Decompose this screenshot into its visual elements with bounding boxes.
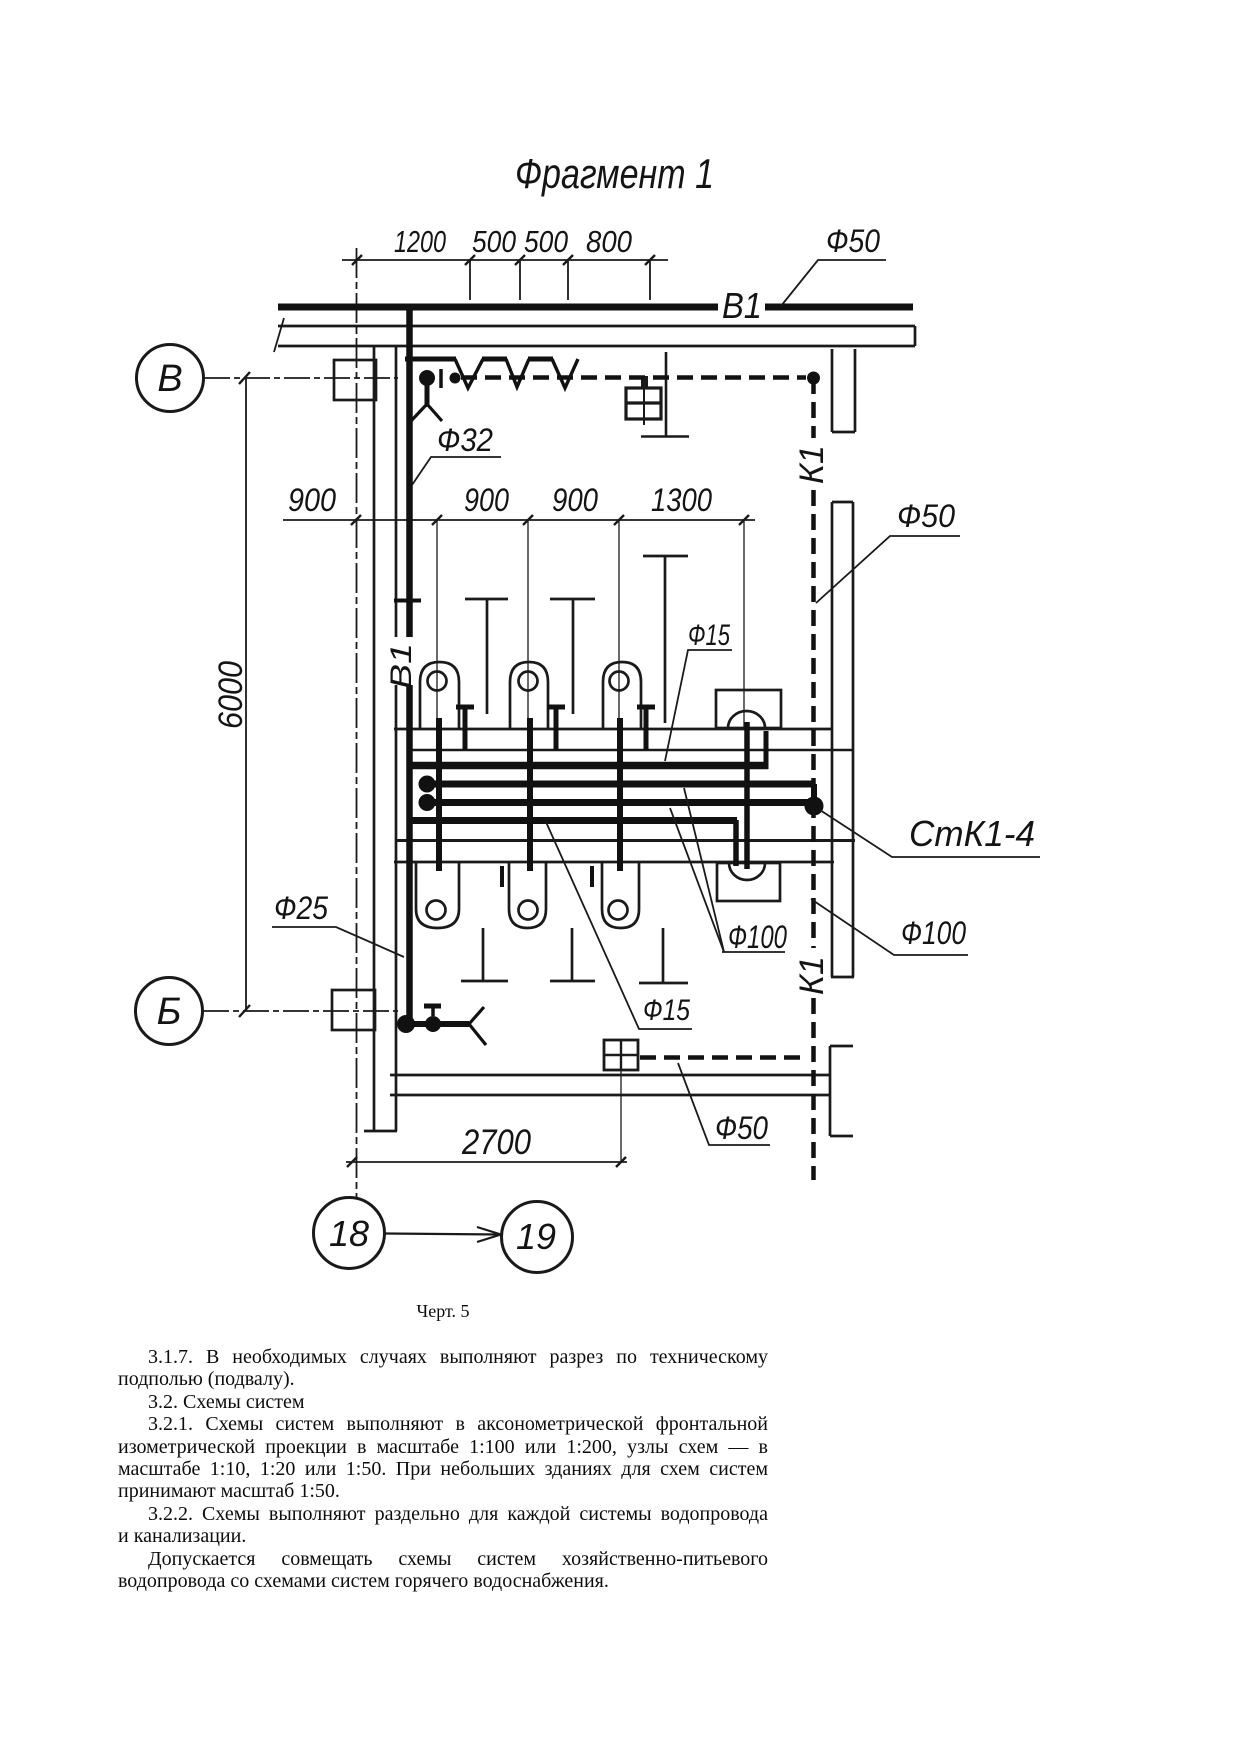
svg-text:500: 500 <box>524 224 568 259</box>
svg-text:2700: 2700 <box>461 1123 531 1162</box>
svg-text:В1: В1 <box>385 643 418 689</box>
svg-text:18: 18 <box>329 1213 369 1254</box>
svg-text:В1: В1 <box>722 285 762 326</box>
svg-text:900: 900 <box>552 482 598 518</box>
svg-text:Б: Б <box>157 991 182 1033</box>
svg-text:19: 19 <box>516 1216 556 1257</box>
svg-text:Ф25: Ф25 <box>274 890 328 926</box>
svg-text:Ф100: Ф100 <box>901 915 966 951</box>
svg-text:К1: К1 <box>793 445 831 484</box>
svg-text:Ф15: Ф15 <box>643 994 690 1027</box>
svg-text:800: 800 <box>586 224 632 259</box>
svg-text:Ф50: Ф50 <box>715 1110 768 1146</box>
svg-text:Ф15: Ф15 <box>688 619 730 652</box>
svg-text:К1: К1 <box>793 956 831 995</box>
svg-text:Ф50: Ф50 <box>826 223 880 259</box>
svg-text:Фрагмент 1: Фрагмент 1 <box>515 150 714 197</box>
svg-text:СтК1-4: СтК1-4 <box>909 813 1035 854</box>
svg-text:900: 900 <box>464 482 509 518</box>
svg-text:В: В <box>157 358 182 400</box>
svg-text:900: 900 <box>288 482 336 518</box>
svg-text:Ф32: Ф32 <box>437 422 493 458</box>
svg-text:500: 500 <box>472 224 516 259</box>
svg-text:1200: 1200 <box>394 224 446 259</box>
svg-text:6000: 6000 <box>212 661 250 729</box>
svg-text:Ф50: Ф50 <box>897 498 955 534</box>
svg-text:Ф100: Ф100 <box>728 919 787 955</box>
svg-text:1300: 1300 <box>651 482 712 518</box>
